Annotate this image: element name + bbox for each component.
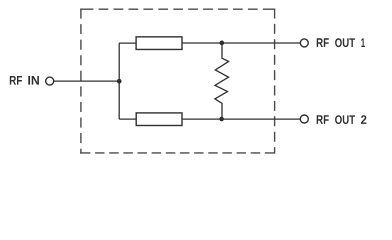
label OUT (of RF OUT 1) (335, 38, 355, 47)
RF OUT 1 terminal circle (300, 39, 308, 47)
label 1 (of RF OUT 1) (361, 38, 365, 47)
label OUT (of RF OUT 2) (335, 115, 355, 124)
label RF (of RF OUT 2) (317, 115, 329, 124)
label 2 (of RF OUT 2) (361, 115, 366, 124)
dashed enclosure box top edge (80, 8, 275, 10)
wire bottom-left to resistor (119, 118, 136, 120)
label RF (of RF OUT 1) (317, 38, 329, 47)
wire input from terminal to junction (54, 80, 119, 82)
resistor R2 (bottom box) (136, 113, 182, 126)
node input junction (117, 79, 122, 84)
wire bottom-right from resistor to RF OUT 2 (182, 118, 301, 120)
wire top-left to resistor (119, 42, 136, 44)
resistor R1 (top box) (136, 37, 182, 50)
dashed enclosure box bottom edge (80, 152, 275, 154)
RF IN terminal circle (46, 77, 54, 85)
node A top output junction (219, 41, 224, 46)
label RF (of RF IN) (10, 76, 22, 85)
dashed enclosure box right edge (274, 9, 276, 154)
RF OUT 2 terminal circle (300, 115, 308, 123)
label IN (of RF IN) (28, 76, 39, 85)
resistor R3 (vertical zigzag between outputs) (215, 43, 229, 119)
wire top-right from resistor to RF OUT 1 (182, 42, 301, 44)
wire vertical trunk (118, 43, 120, 119)
dashed enclosure box left edge (80, 9, 82, 154)
node B bottom output junction (219, 117, 224, 122)
